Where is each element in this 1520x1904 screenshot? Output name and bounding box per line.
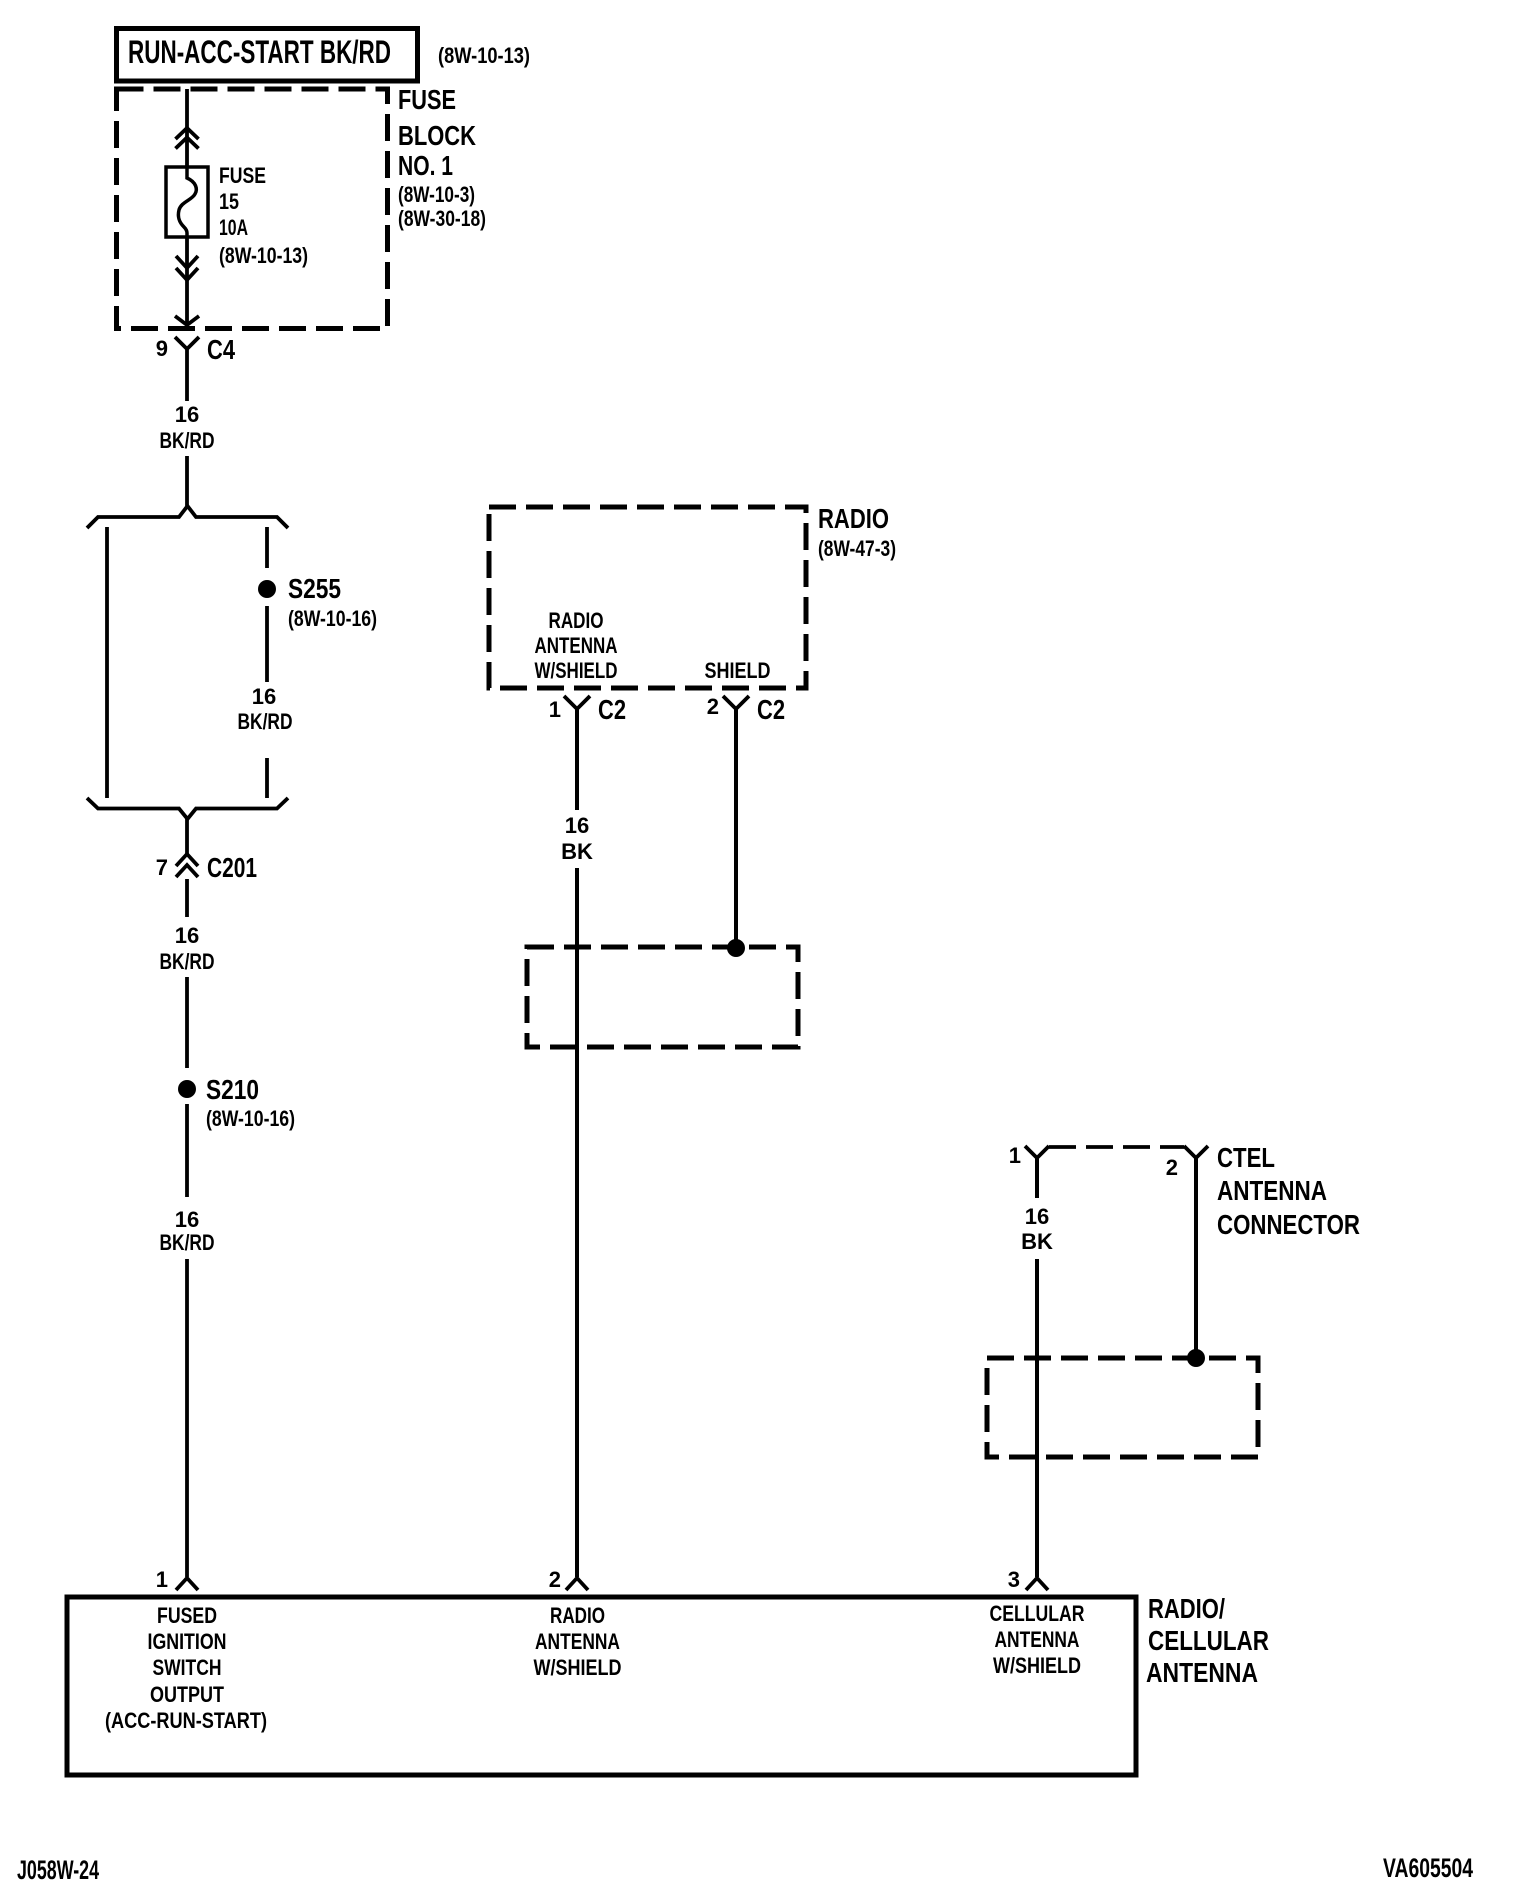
connector C2 pin 2: [707, 694, 785, 725]
wire brace to C201: [185, 819, 189, 855]
svg-text:RUN-ACC-START BK/RD: RUN-ACC-START BK/RD: [128, 34, 391, 70]
bus right wire lower: [265, 758, 269, 798]
svg-text:BK/RD: BK/RD: [160, 949, 215, 974]
shield dashed box (radio antenna cable): [527, 947, 798, 1047]
svg-text:BK/RD: BK/RD: [160, 1230, 215, 1255]
svg-text:2: 2: [1166, 1155, 1178, 1180]
harness bus top brace: [87, 506, 288, 528]
svg-text:ANTENNA: ANTENNA: [535, 1629, 620, 1654]
wire through shield box to bottom box pin 2: [575, 868, 579, 1577]
svg-text:15: 15: [219, 189, 239, 214]
svg-text:RADIO: RADIO: [550, 1603, 605, 1628]
fuse value labels: [219, 163, 308, 268]
cellular shield dashed box: [987, 1358, 1258, 1457]
svg-text:VA605504: VA605504: [1383, 1853, 1473, 1883]
splice S210: [178, 1074, 295, 1131]
svg-text:FUSED: FUSED: [157, 1603, 217, 1628]
wire to bottom box pin 1: [185, 1259, 189, 1577]
svg-text:(ACC-RUN-START): (ACC-RUN-START): [105, 1708, 267, 1733]
svg-text:3: 3: [1008, 1567, 1020, 1592]
svg-text:(8W-30-18): (8W-30-18): [398, 206, 486, 231]
svg-text:16: 16: [565, 813, 589, 838]
bus left wire: [105, 527, 109, 798]
svg-text:CELLULAR: CELLULAR: [1148, 1625, 1269, 1656]
svg-text:CTEL: CTEL: [1217, 1142, 1275, 1173]
svg-text:7: 7: [156, 855, 168, 880]
svg-text:16: 16: [175, 923, 199, 948]
CTEL connector dashed link: [1049, 1145, 1184, 1149]
svg-text:C2: C2: [757, 694, 785, 725]
svg-text:J058W-24: J058W-24: [17, 1855, 99, 1885]
svg-text:C4: C4: [207, 334, 235, 365]
wire C2-1 down: [575, 709, 579, 810]
svg-text:SHIELD: SHIELD: [705, 658, 771, 683]
svg-text:(8W-10-13): (8W-10-13): [219, 243, 308, 268]
svg-text:16: 16: [1025, 1204, 1049, 1229]
svg-text:NO. 1: NO. 1: [398, 150, 453, 181]
double chevron down: [176, 256, 198, 280]
svg-text:1: 1: [156, 1567, 168, 1592]
svg-text:W/SHIELD: W/SHIELD: [993, 1653, 1081, 1678]
wire: [185, 1104, 189, 1197]
svg-text:16: 16: [175, 402, 199, 427]
arrowhead at fuse block exit: [175, 316, 199, 325]
shield junction dot: [727, 939, 745, 957]
wire: [185, 456, 189, 506]
svg-text:(8W-10-16): (8W-10-16): [288, 606, 377, 631]
svg-text:S255: S255: [288, 573, 341, 604]
label FUSE BLOCK NO. 1: [398, 84, 486, 231]
svg-text:(8W-47-3): (8W-47-3): [818, 536, 896, 561]
harness bus bottom brace: [87, 798, 288, 819]
svg-text:1: 1: [549, 697, 561, 722]
svg-text:ANTENNA: ANTENNA: [1217, 1175, 1327, 1206]
bus right wire upper: [265, 527, 269, 568]
cellular shield junction dot: [1187, 1349, 1205, 1367]
connector C201 pin 7: [156, 852, 257, 883]
svg-text:SWITCH: SWITCH: [153, 1655, 222, 1680]
svg-text:BLOCK: BLOCK: [398, 120, 476, 151]
radio/cellular antenna box: [67, 1597, 1136, 1775]
svg-text:1: 1: [1009, 1143, 1021, 1168]
connector C2 pin 1: [549, 694, 626, 725]
svg-text:C201: C201: [207, 852, 257, 883]
svg-text:(8W-10-3): (8W-10-3): [398, 182, 475, 207]
wire: [185, 977, 189, 1068]
svg-text:9: 9: [156, 336, 168, 361]
svg-text:CELLULAR: CELLULAR: [990, 1601, 1085, 1626]
svg-text:16: 16: [175, 1207, 199, 1232]
wire C2-2 down to shield junction: [734, 709, 738, 948]
svg-text:BK/RD: BK/RD: [238, 709, 293, 734]
pin 2 half-connector at bottom box: [549, 1567, 588, 1592]
svg-text:(8W-10-16): (8W-10-16): [206, 1106, 295, 1131]
svg-text:BK: BK: [561, 839, 593, 864]
svg-text:(8W-10-13): (8W-10-13): [438, 43, 530, 68]
label RADIO/CELLULAR ANTENNA: [1146, 1593, 1269, 1688]
pin 2 terminal labels: [534, 1603, 622, 1680]
double chevron up (circuit continues): [176, 128, 199, 149]
svg-text:S210: S210: [206, 1074, 259, 1105]
CTEL antenna connector pin 1: [1009, 1143, 1049, 1168]
pin 1 terminal labels: [105, 1603, 267, 1733]
wire to bottom box pin 3: [1035, 1259, 1039, 1577]
svg-text:16: 16: [252, 684, 276, 709]
svg-text:FUSE: FUSE: [219, 163, 266, 188]
svg-text:RADIO: RADIO: [549, 608, 604, 633]
label CTEL ANTENNA CONNECTOR: [1217, 1142, 1360, 1240]
svg-text:2: 2: [549, 1567, 561, 1592]
svg-text:CONNECTOR: CONNECTOR: [1217, 1209, 1360, 1240]
wire inside fuse block (top): [185, 89, 189, 167]
connector C4 pin 9: [156, 334, 236, 365]
pin 3 terminal labels: [990, 1601, 1085, 1678]
radio internal labels: [535, 608, 771, 683]
wire CTEL pin1 down: [1035, 1158, 1039, 1198]
label RADIO (8W-47-3): [818, 503, 896, 561]
pin 1 half-connector at bottom box: [156, 1567, 198, 1592]
fuse block no.1 dashed box: [117, 89, 388, 329]
svg-text:ANTENNA: ANTENNA: [535, 633, 618, 658]
wire C201 down: [185, 879, 189, 917]
svg-text:C2: C2: [598, 694, 626, 725]
svg-text:ANTENNA: ANTENNA: [995, 1627, 1080, 1652]
svg-text:10A: 10A: [219, 215, 248, 240]
feed label box RUN-ACC-START BK/RD: [117, 29, 418, 82]
svg-text:BK: BK: [1021, 1229, 1053, 1254]
svg-text:RADIO/: RADIO/: [1148, 1593, 1225, 1624]
fuse F15 10A symbol: [166, 167, 208, 237]
wire CTEL pin2 down to junction: [1194, 1158, 1198, 1358]
wire C4 to bus: [185, 360, 189, 401]
splice S255: [258, 573, 377, 631]
svg-text:RADIO: RADIO: [818, 503, 889, 534]
svg-text:BK/RD: BK/RD: [160, 428, 215, 453]
pin 3 half-connector at bottom box: [1008, 1567, 1048, 1592]
svg-text:OUTPUT: OUTPUT: [150, 1682, 224, 1707]
svg-text:ANTENNA: ANTENNA: [1146, 1657, 1258, 1688]
svg-text:W/SHIELD: W/SHIELD: [535, 658, 618, 683]
svg-text:2: 2: [707, 694, 719, 719]
svg-text:FUSE: FUSE: [398, 84, 456, 115]
svg-text:W/SHIELD: W/SHIELD: [534, 1655, 622, 1680]
wire from fuse to block exit: [185, 237, 189, 324]
CTEL antenna connector pin 2: [1166, 1146, 1208, 1180]
bus right wire below splice: [265, 606, 269, 682]
svg-text:IGNITION: IGNITION: [148, 1629, 227, 1654]
radio dashed box: [489, 507, 806, 688]
